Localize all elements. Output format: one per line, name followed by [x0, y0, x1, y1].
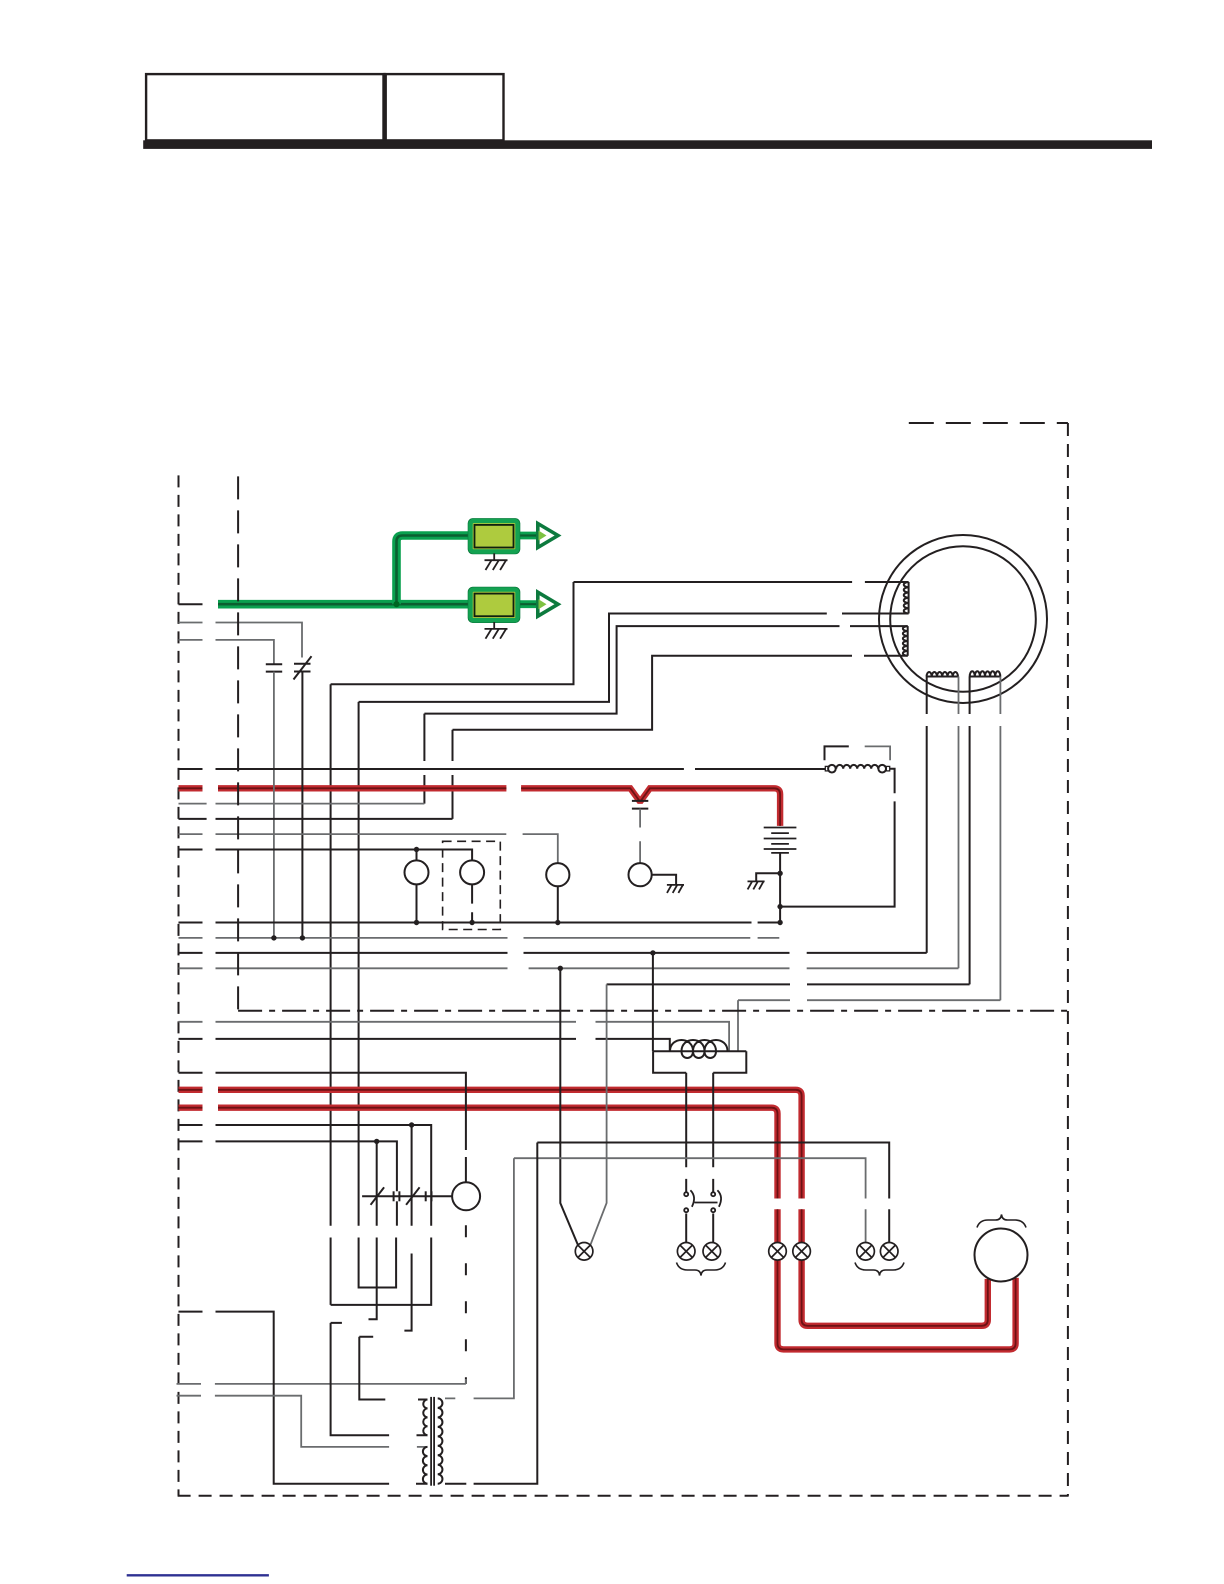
junction: battery node B	[777, 904, 782, 909]
wire: fuse to battery positive	[780, 769, 895, 907]
breaker points P2 (slash)	[406, 1187, 420, 1205]
junction: W1141 points node	[374, 1139, 379, 1144]
condenser plates CP2	[426, 1191, 432, 1201]
wire: black line W1073 (to contact breaker)	[179, 1073, 466, 1183]
wire: staircase 1 (charge coil 1 top to long vertical)	[331, 582, 853, 1305]
tail light unit (large circle)	[975, 1229, 1028, 1282]
wire: lighting coil A left lead down	[926, 677, 928, 953]
junction: W953 ignition coil node	[650, 950, 655, 955]
junction: W938 trimmer node	[300, 935, 305, 940]
wire: grey line W1396 (to CDI winding top)	[177, 1396, 428, 1447]
brace under lamps L6 L7	[855, 1263, 904, 1276]
battery BT1	[764, 828, 797, 853]
condenser plates CP1	[394, 1191, 400, 1201]
condenser C4 (circle)	[452, 1182, 480, 1210]
trimmer capacitor C2 (slashed)	[294, 656, 312, 679]
ground: battery	[748, 881, 765, 889]
indicator circle 4	[629, 863, 652, 886]
wire: circle 1 bottom lead	[416, 884, 418, 922]
capacitor C1	[266, 664, 282, 671]
wire: green tee branch to upper plug	[397, 536, 471, 605]
wire: black line W849 to indicator circles 1,2	[179, 850, 473, 861]
capacitor C3 (at red wire tap)	[632, 801, 648, 809]
diagram border right (dashed)	[1067, 423, 1069, 1496]
wire: ignition coil feed from W953	[652, 953, 654, 1051]
wire: black line W1142 (meter lamp feed)	[537, 1143, 889, 1243]
footer underline	[127, 1574, 269, 1576]
wire: ignition coil leg 2	[712, 1073, 714, 1192]
junction: circle3 bottom node	[555, 920, 560, 925]
indicator circle 2 (in dashed option box)	[460, 860, 484, 884]
wire: capacitor C1 lower lead	[273, 672, 275, 938]
fuse F1	[825, 746, 891, 772]
wire: points vertical mid segment	[396, 1201, 398, 1225]
indicator circle 1	[405, 860, 429, 884]
charge coil 2 (lower left in magneto)	[903, 626, 908, 656]
wire: staircase 2 (charge coil 1 bottom to long vertical)	[359, 614, 827, 1288]
wire: C3 to indicator circle 4	[639, 809, 641, 864]
ignition coil T1 (primary bar + loops)	[653, 1040, 746, 1073]
junction: green tee node	[393, 601, 399, 607]
engine section border vertical (dash)	[237, 476, 239, 1010]
wire: grey line W803 (staircase 3 harness)	[179, 803, 425, 805]
wire: grey line W1384	[177, 1379, 466, 1384]
junction: circle1 bottom node	[414, 920, 419, 925]
wire: black line W769 to fuse	[179, 768, 828, 770]
wire: black line W1125 (to points vertical B)	[179, 1125, 432, 1305]
wire: red lighting feed 1 (upper)	[179, 1090, 988, 1326]
wire: circle 2 bottom lead	[471, 884, 473, 922]
wire: grey line W834 to indicator circle 3	[179, 834, 558, 863]
title box right	[385, 74, 504, 140]
wire: battery negative stem	[779, 853, 781, 923]
option box (dashed) around circle 2	[443, 841, 501, 929]
junction: W1125 points node	[409, 1122, 414, 1127]
lamp L7	[880, 1243, 898, 1261]
lamp L1 (headlamp)	[575, 1243, 593, 1261]
diagram border left (dashed)	[178, 475, 180, 1495]
header rule bar	[143, 140, 1152, 149]
junction: W968 headlamp node	[558, 966, 563, 971]
wire: black line W819 (staircase 4 harness)	[179, 818, 453, 820]
ground: spark plug 2	[485, 622, 508, 639]
wire: battery to ground	[756, 873, 780, 881]
wire: grey line W1000 (to lighting coil B right)	[738, 999, 1000, 1001]
brace above tail light	[977, 1215, 1026, 1228]
wire: condenser bottom dashed lead	[465, 1225, 467, 1384]
lighting coil B (bottom right in magneto)	[970, 671, 1001, 676]
wire: red lighting feed 2 (lower)	[179, 1108, 1016, 1350]
spark plug connector 2 (lower green box with arrow)	[469, 588, 558, 622]
breaker points P1 (slash)	[371, 1187, 385, 1205]
wire: black line W984 (to lighting coil B left)	[607, 983, 970, 985]
wire: grey line W938	[179, 937, 780, 939]
lamp L5 (tail on red feed 1)	[793, 1243, 811, 1261]
wire: circle 4 to ground	[652, 875, 676, 885]
wire: headlamp feed left leg	[560, 968, 578, 1245]
lighting coil A (bottom left in magneto)	[927, 672, 959, 676]
wire: grey line W968 (to lighting coil A right)	[179, 967, 959, 969]
wire: black L-wire W1312 (to CDI winding bottom)	[179, 1312, 428, 1484]
wire: lighting coil B right lead down	[999, 677, 1001, 1001]
wire: connector tick + drop to CDI upper winding top	[359, 1337, 427, 1400]
wire: lighting coil A right lead down	[958, 677, 960, 969]
title box left	[146, 74, 385, 140]
wire: trimmer capacitor lower lead	[301, 672, 303, 938]
junction: battery node C	[777, 920, 782, 925]
wire: grey lead to trimmer capacitor	[179, 623, 303, 658]
engine section border horizontal (dash-dot)	[238, 1010, 1068, 1012]
ground: circle 4	[667, 885, 684, 893]
wire: black line W1141 (to points vertical A)	[179, 1141, 397, 1191]
charge coil 1 (upper left in magneto)	[904, 582, 909, 614]
wire: black line W1039 (to ignition coil)	[179, 1039, 670, 1051]
wire: main red feed (battery line)	[179, 788, 781, 826]
brace under lamps L2 L3	[677, 1263, 726, 1276]
wire: charge coil 2 top lead	[850, 625, 908, 627]
ground: spark plug 1	[485, 553, 508, 570]
wire: black stub at green lead (left border)	[179, 603, 203, 605]
wire: switch to lamp L3	[712, 1214, 714, 1243]
contact breaker assembly (points line)	[362, 1195, 452, 1197]
diagram border bottom (dashed)	[178, 1495, 1069, 1497]
junction: circle1 top node	[414, 847, 419, 852]
T2 secondary winding (right)	[438, 1398, 443, 1483]
T2 primary winding lower (left)	[423, 1447, 428, 1484]
wire: lighting coil B left lead down	[969, 677, 971, 985]
wire: switch to lamp L2	[685, 1214, 687, 1243]
junction: W938 capacitor node	[271, 935, 276, 940]
wire: indicator circle 1 top lead	[416, 850, 418, 861]
wire: green spark plug lead (thick green)	[218, 600, 470, 609]
T2 primary winding upper (left)	[423, 1400, 427, 1436]
lamp L6	[857, 1243, 875, 1261]
lamp L2	[677, 1243, 695, 1261]
wire: grey line W1158 (meter lamp feed 2)	[514, 1158, 866, 1242]
wire: charge coil 1 bottom lead	[842, 613, 909, 615]
wire: staircase 4 (charge coil 2 bottom to harness)	[453, 656, 853, 819]
wire: circle 3 bottom lead	[557, 886, 559, 922]
lamp L4 (tail on red feed 2)	[769, 1243, 787, 1261]
wire: headlamp feed right leg	[590, 984, 606, 1245]
wire: black line W953 (to lighting coil A left)	[179, 952, 927, 954]
flywheel magneto rotor (outer ring)	[879, 535, 1047, 703]
wire: tail harness vertical grey (to magneto side)	[445, 1158, 514, 1398]
wire: charge coil 2 bottom lead	[864, 655, 908, 657]
diagram border top-right (dashed)	[909, 422, 1068, 424]
lighting switch S1 (contact pair 1)	[684, 1190, 694, 1212]
wire: charge coil 1 top lead	[865, 581, 909, 583]
CDI / ignition transformer T2 core	[431, 1397, 434, 1486]
lighting switch S1 (contact pair 2)	[695, 1190, 722, 1212]
wire: lighting coil B left drop to coil	[737, 1000, 739, 1051]
wire: black line W922 (ground rail)	[179, 922, 781, 924]
indicator circle 3	[546, 863, 569, 886]
wire: ignition coil leg 1 (to lamp switch)	[685, 1073, 687, 1192]
wire: tail harness vertical black	[445, 1143, 537, 1484]
junction: circle2 bottom node	[469, 920, 474, 925]
wire: staircase 3 (charge coil 2 top to harness)	[424, 626, 839, 804]
wire: grey lead to capacitor	[179, 640, 274, 664]
junction: battery node A	[777, 871, 782, 876]
lamp L3	[703, 1243, 721, 1261]
wire: connector tick + drop to CDI upper winding bottom	[331, 1323, 428, 1435]
wire: points vertical B2 (dangling connector)	[404, 1125, 411, 1331]
spark plug connector 1 (upper green box with arrow)	[469, 519, 558, 553]
wire: points vertical A2 (dangling connector)	[369, 1141, 377, 1319]
wire: grey line W1022 (to ignition coil)	[179, 1022, 730, 1051]
